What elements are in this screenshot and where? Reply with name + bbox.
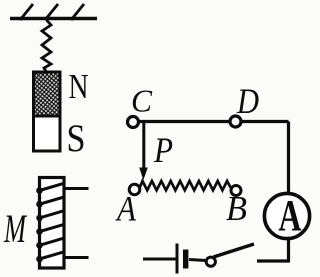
svg-text:C: C xyxy=(131,83,153,119)
svg-text:A: A xyxy=(115,189,137,229)
svg-text:M: M xyxy=(3,206,27,251)
svg-text:S: S xyxy=(67,117,86,160)
svg-text:B: B xyxy=(226,189,247,228)
svg-text:D: D xyxy=(236,81,259,121)
svg-text:A: A xyxy=(279,191,302,240)
svg-text:P: P xyxy=(153,130,173,170)
svg-text:N: N xyxy=(69,67,89,106)
